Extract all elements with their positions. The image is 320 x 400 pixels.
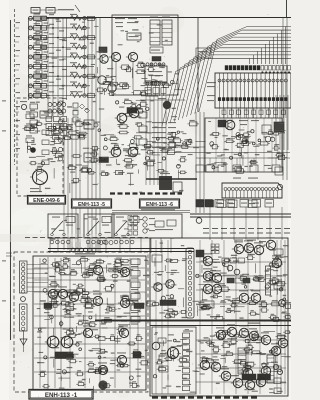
svg-text:ENE-049-6: ENE-049-6 (33, 198, 60, 204)
svg-text:ENH-113 -6: ENH-113 -6 (146, 202, 173, 208)
svg-text:ENH-113 -5: ENH-113 -5 (78, 202, 105, 208)
svg-text:ENH-113 -1: ENH-113 -1 (45, 392, 78, 399)
